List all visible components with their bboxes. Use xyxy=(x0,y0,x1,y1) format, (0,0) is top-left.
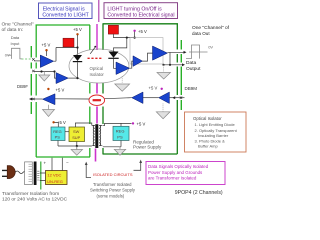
+5V supply dot (magenta) right power xyxy=(132,122,134,124)
arrowhead data out 1 xyxy=(184,51,187,54)
node junction dots output rail xyxy=(162,64,164,66)
annotation box: Data Signals Optically Isolated xyxy=(146,162,225,185)
buffer U5 (output driver channel 1) xyxy=(153,46,168,60)
+5V supply dot (magenta) channel2 right xyxy=(161,88,163,90)
svg-text:1. Light Emitting Diode: 1. Light Emitting Diode xyxy=(195,122,236,127)
svg-text:0V: 0V xyxy=(208,45,213,50)
label: ISOLATED CIRCUITS with pointer arrows xyxy=(85,160,142,178)
buffer U2 (LED driver channel 1) xyxy=(56,73,68,84)
svg-text:Converted to LIGHT: Converted to LIGHT xyxy=(42,13,89,19)
resistor R2 (red box, photodiode load) xyxy=(108,25,118,34)
+5V supply dot (orange) LED anode xyxy=(76,33,78,35)
wire: T1 primary bottom return xyxy=(76,146,78,150)
wire: U5 output to DB9M pin xyxy=(168,51,185,53)
wire: LED cathode down xyxy=(77,62,79,78)
ground G1 xyxy=(39,75,50,81)
node X mark: channel2 output pin (left) xyxy=(32,98,34,100)
node X mark: lower input pin xyxy=(32,70,34,72)
svg-text:120 or 240 Volts AC to 12VDC: 120 or 240 Volts AC to 12VDC xyxy=(2,196,68,202)
AC cord xyxy=(15,171,25,174)
light emission arrow xyxy=(90,47,95,54)
resistor R1 (red box, LED current limit) xyxy=(63,38,74,47)
buffer U4 xyxy=(133,56,143,67)
annotation box: Electrical Signal is Converted to LIGHT xyxy=(39,3,93,19)
label: One Channel of data Out xyxy=(192,25,230,36)
wire: isolator to buffer U8 xyxy=(55,98,89,100)
wire: U1 output up to resistor rail xyxy=(54,48,78,62)
wire: U3 out to U4 in xyxy=(130,61,134,68)
wire: T1 secondary bottom to REG PS xyxy=(103,141,121,147)
svg-text:Buffer Amp: Buffer Amp xyxy=(198,144,218,149)
ground G4 xyxy=(157,73,171,80)
buffer U3 (photodiode amp) xyxy=(116,62,130,75)
transformer T2 primary winding box xyxy=(25,162,33,185)
svg-text:Output: Output xyxy=(186,66,201,72)
wire: T1 secondary top to +5V xyxy=(103,123,132,125)
transformer T1 primary winding (left coil) xyxy=(93,125,94,145)
optical isolator ellipse outline xyxy=(69,49,129,83)
DB9M connector pin bar (right) xyxy=(180,40,182,110)
svg-text:+5 V: +5 V xyxy=(56,88,65,93)
wire: R2 bottom to +5V rail xyxy=(114,34,135,38)
svg-text:+5 V: +5 V xyxy=(42,42,51,47)
ground G2 xyxy=(43,110,55,117)
svg-text:Transformer Isolated: Transformer Isolated xyxy=(93,182,132,187)
svg-text:REG: REG xyxy=(53,129,61,134)
svg-text:data Out: data Out xyxy=(192,31,210,36)
svg-text:SW: SW xyxy=(73,129,80,134)
node junction dot B xyxy=(53,70,55,72)
LED D1 (light emitting diode, channel 1) xyxy=(73,55,82,61)
right isolated-circuit outline (dark green rect) xyxy=(103,24,179,154)
regulator box REG PS (right) xyxy=(113,126,129,140)
switching supply box SW SUP xyxy=(69,127,85,142)
buffer U6 (channel 2 input buffer, points left) xyxy=(159,92,170,104)
light path (red dashed) xyxy=(88,57,104,59)
annotation box: LIGHT turning On/Off is Converted to Electrical signal xyxy=(104,3,178,19)
svg-text:DB9F: DB9F xyxy=(17,84,28,89)
svg-text:are Transformer Isolated: are Transformer Isolated xyxy=(148,176,197,181)
dotted stub to ground G5 xyxy=(121,76,123,84)
wire: rail down to photodiode cathode xyxy=(114,38,127,52)
wire: +5V to U1 xyxy=(46,51,48,56)
ground G5 xyxy=(115,84,130,91)
wire: branch down xyxy=(169,53,171,65)
svg-text:Data Signals Optically Isolate: Data Signals Optically Isolated xyxy=(148,164,209,169)
wire: second output to DB9M xyxy=(164,64,183,66)
node junction dot LED cathode / U2 out xyxy=(76,77,78,79)
dotted stub to ground G6 xyxy=(162,104,164,112)
isolation barrier segment mid xyxy=(96,83,98,94)
svg-text:12 VDC: 12 VDC xyxy=(47,173,61,178)
label: Data Output xyxy=(186,60,201,72)
svg-text:Converted to Electrical signal: Converted to Electrical signal xyxy=(107,13,174,19)
unregulated supply box 12 VDC UN-REG xyxy=(46,171,68,185)
node X mark: channel2 input pin (right) xyxy=(180,97,182,99)
+5V supply dot (magenta) right side xyxy=(133,30,135,32)
svg-text:9POP4 (2 Channels): 9POP4 (2 Channels) xyxy=(175,190,223,196)
arrowhead into channel2 xyxy=(172,96,175,99)
svg-text:Electrical Signal is: Electrical Signal is xyxy=(43,6,85,12)
wire: input to buffer U1 xyxy=(34,60,40,62)
transformer T2 core xyxy=(34,162,37,186)
svg-text:Switching Power Supply: Switching Power Supply xyxy=(90,188,136,193)
wire: +5V to regulator xyxy=(55,122,59,127)
IC package outline (gray) xyxy=(130,38,163,64)
isolation barrier segment below transformer xyxy=(95,149,97,162)
output waveform glyph with 0V label xyxy=(186,45,208,59)
node junction dot at R1 / LED anode xyxy=(76,46,78,48)
svg-text:Data: Data xyxy=(11,35,20,40)
arrowhead data out channel2 xyxy=(29,98,32,101)
svg-text:PS: PS xyxy=(117,135,123,140)
node junction dots on +5V rail xyxy=(126,37,128,39)
svg-text:Input: Input xyxy=(11,41,21,46)
svg-text:−: − xyxy=(66,160,69,165)
svg-text:Power Supply: Power Supply xyxy=(133,145,162,150)
svg-text:+5 V: +5 V xyxy=(73,27,82,32)
wire: junction B down to buffer U2 input xyxy=(55,72,57,79)
wire: U2 output to LED cathode xyxy=(68,77,77,79)
svg-text:+5 V: +5 V xyxy=(138,29,147,34)
left isolated-circuit outline (green rect) xyxy=(36,25,91,157)
wire: U6 out to U7 in xyxy=(143,97,159,99)
wire: stub into REG PS right xyxy=(120,123,122,126)
+5V supply dot (orange) channel2 left xyxy=(47,88,49,90)
svg-text:Transformer Isolation from: Transformer Isolation from xyxy=(2,191,59,197)
svg-text:PS: PS xyxy=(55,135,61,140)
svg-text:Insulating Barrier: Insulating Barrier xyxy=(198,133,229,138)
light path channel 2 (red bar) xyxy=(93,99,101,101)
stub to ground G2 xyxy=(48,105,50,110)
wires: SW SUP to transformer T1 xyxy=(75,123,91,127)
dotted stub to ground G4 xyxy=(163,65,165,73)
transformer T2 secondary ticks xyxy=(37,171,39,180)
label: Transformer Isolation from 120 or 240 Volts AC xyxy=(2,191,68,202)
ground G6 xyxy=(156,112,170,119)
label: One Channel of data In xyxy=(2,21,35,46)
svg-text:of data In:: of data In: xyxy=(2,27,24,33)
svg-text:REG: REG xyxy=(116,128,125,133)
photodiode D2 (channel 1) xyxy=(109,52,119,58)
buffer U1 (input buffer channel 1) xyxy=(40,55,53,68)
wire: photodiode anode to buffer U3 xyxy=(114,59,117,68)
node X mark: data input pin xyxy=(32,58,34,60)
wire: U8 output to DB9F pin xyxy=(31,98,43,100)
svg-text:+5 V: +5 V xyxy=(149,85,158,90)
ground G8 xyxy=(114,149,125,155)
svg-text:+5 V: +5 V xyxy=(137,121,146,126)
transformer T1 core xyxy=(95,124,98,148)
AC plug prongs xyxy=(2,170,7,176)
svg-text:UN-REG: UN-REG xyxy=(47,179,63,184)
isolation line (green) at T2 xyxy=(40,162,42,190)
AC plug body xyxy=(7,166,15,179)
input waveform glyph with 0V label xyxy=(5,48,31,59)
buffer U7 (channel 2 LED driver, points left) xyxy=(132,92,143,104)
svg-text:Data: Data xyxy=(186,60,196,66)
svg-text:SUP: SUP xyxy=(72,135,80,140)
wires: 12VDC box up to circuits xyxy=(52,158,62,171)
legend box: Optical Isolator explanation xyxy=(185,112,247,152)
svg-text:Isolator: Isolator xyxy=(90,72,105,77)
svg-text:One "Channel": One "Channel" xyxy=(2,21,35,27)
wire: DB9M pin to buffer U6 xyxy=(169,97,184,99)
svg-text:ISOLATED CIRCUITS: ISOLATED CIRCUITS xyxy=(93,172,133,177)
+5V supply dot (orange) for U1 xyxy=(45,49,47,51)
svg-text:+: + xyxy=(44,161,47,166)
svg-text:Optical Isolator: Optical Isolator xyxy=(193,116,222,121)
label: Transformer Isolated Switching Power Supply xyxy=(90,182,136,198)
ground G7 xyxy=(71,150,82,156)
svg-text:Optical: Optical xyxy=(90,66,104,71)
wire: stub to ground G1 xyxy=(43,72,45,76)
svg-text:(some models): (some models) xyxy=(97,193,125,198)
+5V supply dot (orange) for REG PS left xyxy=(52,121,54,123)
arrowhead data out 2 xyxy=(182,63,185,66)
isolation barrier segment upper xyxy=(96,24,98,50)
svg-text:DB9M: DB9M xyxy=(185,86,198,91)
wires: T2 secondary to 12VDC box xyxy=(40,173,46,181)
svg-text:LIGHT turning On/Off is: LIGHT turning On/Off is xyxy=(107,6,162,12)
node junction dot A xyxy=(40,70,42,72)
wire: U7 out to channel2 isolator xyxy=(105,98,132,99)
isolation barrier (magenta) top segment between boxes xyxy=(98,0,100,22)
regulator box REG PS (left) xyxy=(51,127,65,141)
transformer T1 secondary winding (right coil) xyxy=(99,125,100,145)
buffer U8 (channel 2 output driver, points left) xyxy=(43,94,56,105)
wires: REG PS to SW SUP xyxy=(65,131,69,133)
svg-text:Power Supply and Grounds: Power Supply and Grounds xyxy=(148,170,203,175)
wire: U4 out to U5 in xyxy=(143,53,153,61)
DB9F connector pin bar (left) xyxy=(30,46,32,114)
optical isolator channel 2 (red ellipse) xyxy=(89,95,105,105)
stub to ground G8 xyxy=(119,147,121,150)
wire: +5V down to LED anode xyxy=(77,35,79,55)
wire: lower pin to buffer U2 xyxy=(34,71,55,73)
isolation barrier segment lower xyxy=(96,107,98,124)
